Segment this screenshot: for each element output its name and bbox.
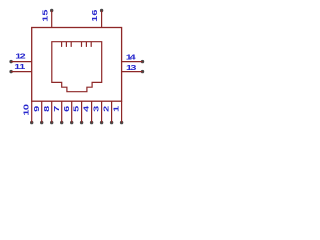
svg-text:1: 1 bbox=[91, 16, 99, 22]
svg-text:2: 2 bbox=[102, 106, 110, 112]
pin 11 bbox=[9, 63, 31, 74]
jack contact tooth 3 bbox=[70, 42, 72, 47]
jack contact tooth 5 bbox=[85, 42, 87, 47]
svg-text:5: 5 bbox=[72, 106, 80, 112]
jack contact tooth 2 bbox=[65, 42, 67, 47]
pin 6 bbox=[62, 101, 73, 124]
pin 16 bbox=[91, 9, 104, 28]
RJ45 jack face outline bbox=[52, 42, 102, 92]
pin 5 bbox=[72, 101, 83, 124]
svg-text:3: 3 bbox=[130, 63, 136, 71]
svg-text:3: 3 bbox=[92, 106, 100, 112]
pin 12 bbox=[9, 52, 31, 63]
pin 15 bbox=[41, 9, 54, 28]
svg-text:4: 4 bbox=[130, 53, 137, 61]
jack contact tooth 4 bbox=[81, 42, 83, 47]
pin 14 bbox=[122, 53, 145, 63]
svg-text:1: 1 bbox=[112, 106, 120, 112]
jack contact tooth 1 bbox=[61, 42, 63, 47]
svg-text:4: 4 bbox=[82, 105, 90, 112]
pin 7 bbox=[52, 101, 63, 124]
svg-text:7: 7 bbox=[52, 106, 60, 112]
symbol body outline bbox=[32, 28, 122, 102]
svg-text:0: 0 bbox=[22, 104, 30, 110]
pin 1 bbox=[112, 101, 123, 124]
pin 3 bbox=[92, 101, 103, 124]
pin 10 bbox=[22, 101, 33, 124]
pin 13 bbox=[122, 63, 145, 73]
svg-text:8: 8 bbox=[42, 106, 50, 112]
pin 8 bbox=[42, 101, 53, 124]
svg-text:6: 6 bbox=[91, 10, 99, 16]
svg-text:1: 1 bbox=[22, 110, 30, 116]
jack contact tooth 6 bbox=[90, 42, 92, 47]
pin 4 bbox=[82, 101, 93, 124]
pin 9 bbox=[32, 101, 43, 124]
svg-text:1: 1 bbox=[41, 16, 49, 22]
svg-text:6: 6 bbox=[62, 106, 70, 112]
svg-text:9: 9 bbox=[32, 106, 40, 112]
svg-text:5: 5 bbox=[41, 10, 49, 16]
pin 2 bbox=[102, 101, 113, 124]
svg-text:1: 1 bbox=[19, 63, 25, 71]
svg-text:2: 2 bbox=[20, 52, 26, 60]
